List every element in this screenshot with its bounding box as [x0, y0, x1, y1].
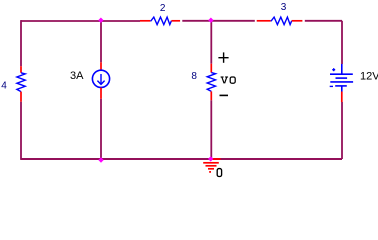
plus sign (vo polarity) — [218, 52, 228, 62]
svg-text:2: 2 — [160, 3, 166, 14]
junction node bottom B — [208, 156, 213, 161]
resistor 3 (top right, horizontal) — [257, 17, 303, 25]
junction node bottom A — [98, 157, 103, 162]
wire branch B upper (resistor 8) — [210, 21, 212, 64]
label "0" — [217, 169, 221, 177]
wire right vertical upper — [341, 21, 343, 64]
wire top rail middle segment — [182, 20, 255, 22]
wire top rail left segment — [21, 20, 140, 22]
battery 12V — [330, 64, 353, 102]
label "vo" — [221, 77, 236, 83]
current source 3A — [92, 62, 109, 98]
junction node top A — [98, 18, 103, 23]
svg-text:3: 3 — [281, 2, 287, 13]
resistor 8 (middle branch) — [207, 64, 215, 100]
wire left vertical upper — [20, 20, 22, 66]
wire left vertical lower — [20, 102, 22, 160]
wire top rail right segment — [305, 20, 342, 22]
ground 0 — [203, 159, 220, 173]
minus sign (vo polarity) — [220, 94, 229, 96]
junction node top B — [208, 18, 213, 23]
svg-text:12V: 12V — [360, 71, 378, 83]
resistor 4 (left branch) — [17, 66, 25, 102]
wire branch A upper (current source) — [100, 21, 102, 62]
wire branch B lower — [210, 100, 212, 159]
svg-text:3A: 3A — [70, 70, 84, 82]
resistor 2 (top, horizontal) — [140, 17, 180, 25]
wire branch A lower — [100, 99, 102, 160]
svg-text:8: 8 — [191, 71, 197, 82]
wire bottom rail — [21, 158, 342, 160]
svg-text:4: 4 — [1, 81, 7, 92]
wire right vertical lower — [341, 102, 343, 159]
